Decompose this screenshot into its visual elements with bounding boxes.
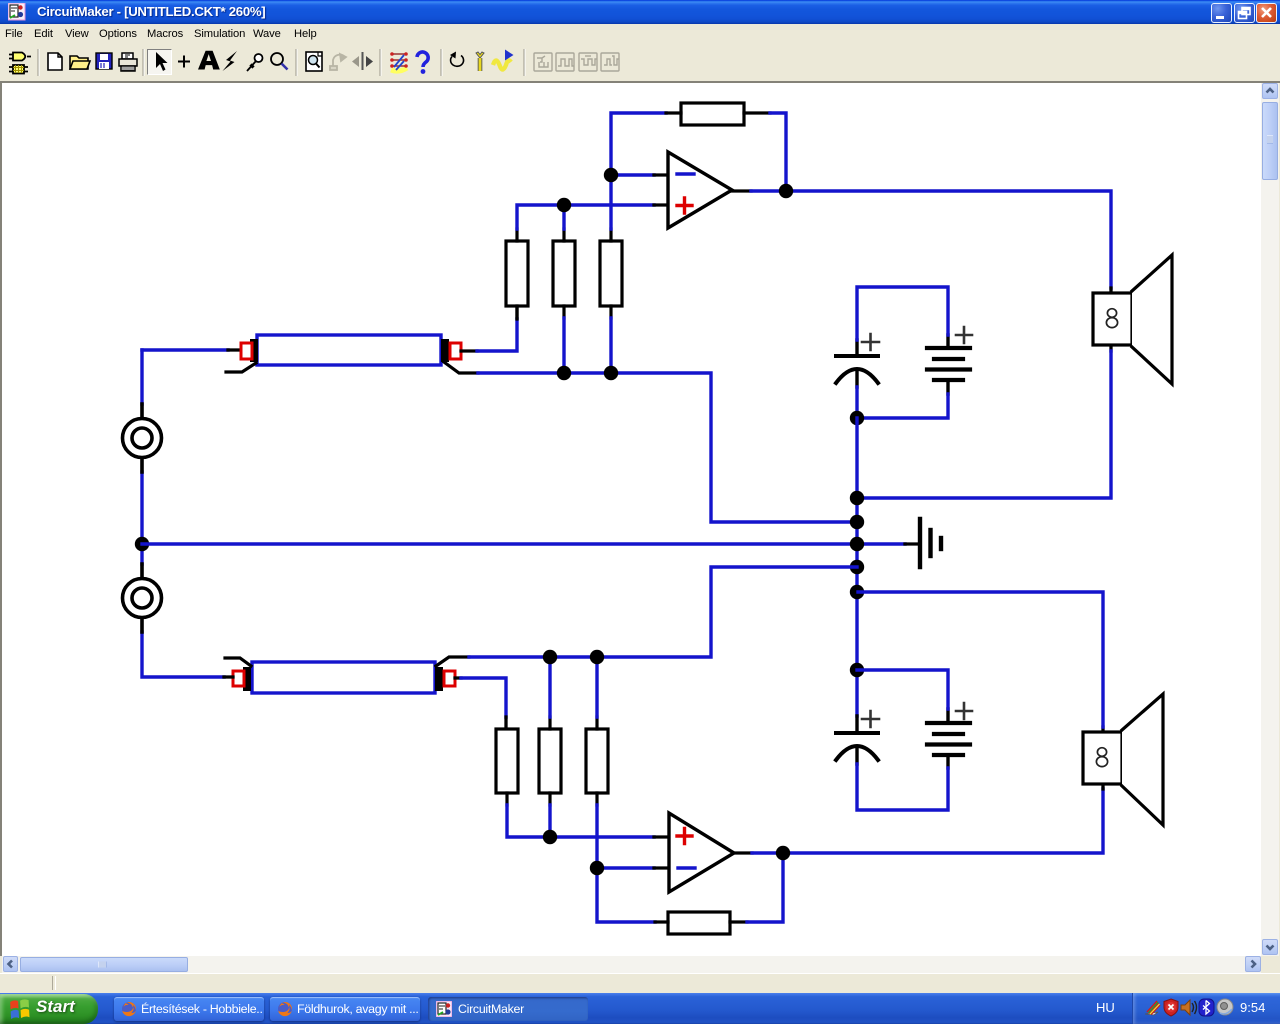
resistor R8 (feedback U2) xyxy=(655,912,747,934)
zoom document icon xyxy=(306,52,322,71)
tray icons xyxy=(1144,998,1236,1018)
scope button 1 (disabled) xyxy=(534,53,552,71)
text tool icon xyxy=(198,51,220,70)
wire center line to ground xyxy=(142,542,918,545)
help icon xyxy=(417,52,428,74)
lightning tool icon xyxy=(223,51,238,71)
op-amp U2 xyxy=(669,813,734,892)
horizontal scrollbar xyxy=(2,956,1261,973)
toolbar xyxy=(0,46,1280,81)
wire left vertical source column xyxy=(142,350,224,677)
capacitor C2 xyxy=(836,711,879,764)
resistor R3 xyxy=(600,229,622,318)
select tool button (pressed) xyxy=(148,50,172,75)
wire speaker LS1 return xyxy=(858,351,1111,498)
mirror icon xyxy=(352,52,373,70)
resistor R5 xyxy=(496,729,518,805)
wire P1 wiper rail to center junction xyxy=(478,318,857,522)
wire P2 wiper rail to center junction xyxy=(469,567,857,717)
reset icon xyxy=(450,52,464,67)
wire supply loop top (C1/B1) xyxy=(857,287,948,418)
resistor R2 xyxy=(553,229,575,318)
node R2 top junction xyxy=(557,198,571,212)
wire P2 left terminal stub xyxy=(224,675,233,678)
node R2 bottom junction xyxy=(557,366,571,380)
wire U2 output to speaker LS2 xyxy=(734,789,1103,853)
save floppy icon xyxy=(96,53,112,69)
wire op-amp U2 inverting input rail / feedback left xyxy=(597,805,670,922)
potentiometer P2 xyxy=(225,657,469,693)
wire op-amp U1 inverting input rail / feedback left xyxy=(611,113,670,229)
resistor R1 xyxy=(506,229,528,318)
resistor R7 xyxy=(586,717,608,805)
battery B1 xyxy=(927,327,972,394)
wire op-amp U2 noninverting input rail xyxy=(507,805,670,837)
wire R8 right to U2 output xyxy=(747,855,783,922)
wire edit icon xyxy=(390,52,408,71)
node C2 top junction xyxy=(850,663,864,677)
wire R4 right to U1 output xyxy=(770,113,786,189)
node R3 bottom junction xyxy=(604,366,618,380)
speaker LS2 xyxy=(1083,694,1163,825)
wrench icon xyxy=(476,52,484,71)
scope button 2 (disabled) xyxy=(556,53,574,71)
analog/digital toggle icon xyxy=(9,53,31,74)
potentiometer P1 xyxy=(226,335,478,373)
node P1 network junction xyxy=(850,515,864,529)
print icon xyxy=(119,53,137,71)
node P2 network junction xyxy=(850,560,864,574)
battery B2 xyxy=(927,703,972,768)
node R6 bottom junction xyxy=(543,830,557,844)
menu bar xyxy=(0,24,1280,46)
node speaker LS2 return junction xyxy=(850,585,864,599)
resistor R4 (feedback U1) xyxy=(666,103,770,125)
wire source V1 to potentiometer P1 left terminal xyxy=(142,348,240,351)
resistor R6 xyxy=(539,717,561,805)
ground xyxy=(920,519,941,567)
signal source V1 xyxy=(123,404,162,472)
node C1 bottom junction xyxy=(850,411,864,425)
waveform run icon xyxy=(493,50,514,70)
vertical scrollbar xyxy=(1261,83,1279,956)
wire speaker LS2 top return xyxy=(858,592,1103,727)
wire main center rail xyxy=(855,418,858,716)
rotate icon (disabled) xyxy=(330,54,346,70)
taskbar xyxy=(0,993,1280,1024)
node A (source junction, center line) xyxy=(135,537,149,551)
scope button 4 (disabled) xyxy=(601,53,619,71)
new document icon xyxy=(48,53,62,70)
wire U1 output to speaker LS1 xyxy=(732,191,1111,288)
title bar xyxy=(0,0,1280,24)
probe tool icon xyxy=(247,54,263,71)
status bar xyxy=(0,973,1280,994)
node R7 top junction xyxy=(590,650,604,664)
scope button 3 (disabled) xyxy=(579,53,597,71)
capacitor C1 xyxy=(836,334,879,387)
node R6 top junction xyxy=(543,650,557,664)
signal source V2 xyxy=(123,564,162,632)
node U1 output junction xyxy=(779,184,793,198)
speaker LS1 xyxy=(1093,255,1172,384)
node U2 inverting input junction xyxy=(590,861,604,875)
node speaker LS1 return junction xyxy=(850,491,864,505)
wire P1 right terminal to resistor R1 xyxy=(461,306,517,351)
wire op-amp U1 noninverting input rail xyxy=(517,205,670,229)
node U2 output junction xyxy=(776,846,790,860)
node ground junction xyxy=(850,537,864,551)
zoom tool icon xyxy=(271,53,288,70)
wire supply loop bottom (C2/B2) xyxy=(857,670,948,810)
op-amp U1 xyxy=(668,152,732,228)
node U1 inverting input junction xyxy=(604,168,618,182)
wire P2 right terminal to resistor R5 xyxy=(455,678,506,729)
open folder icon xyxy=(70,56,90,69)
plus tool icon xyxy=(178,56,190,68)
